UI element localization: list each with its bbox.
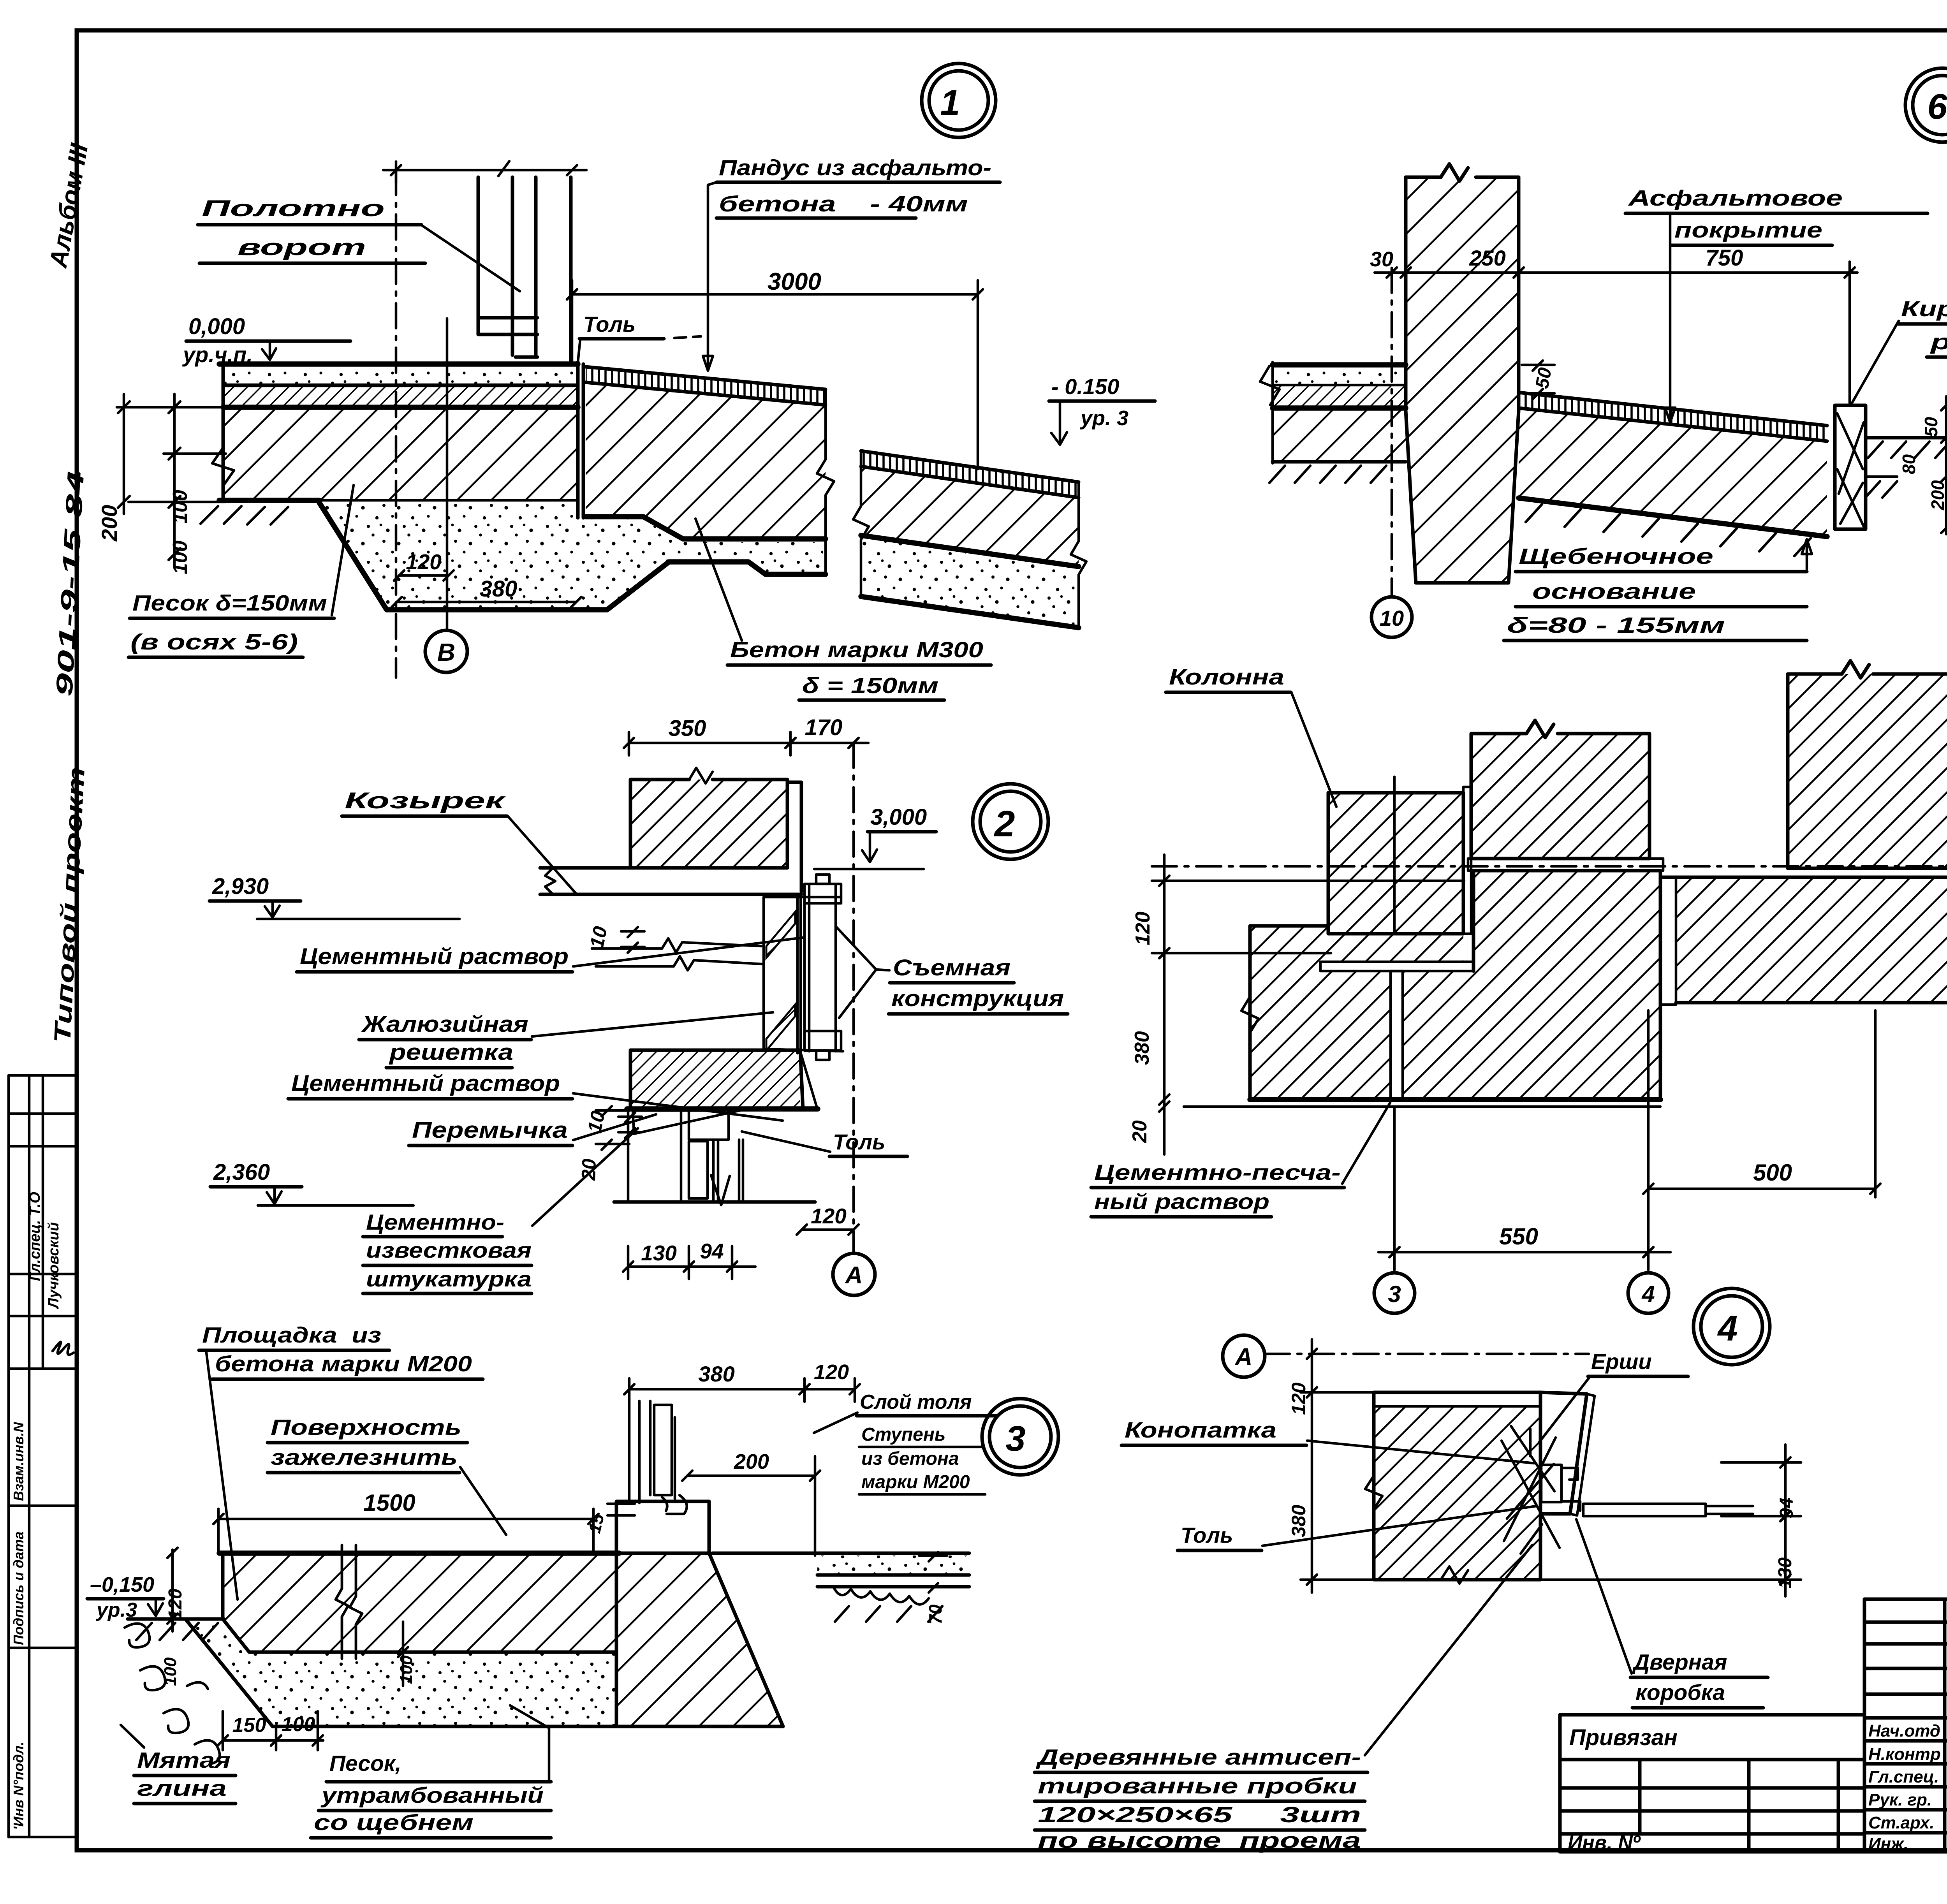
frame bottom bracket (805, 1031, 841, 1051)
dim 550 (1378, 1251, 1671, 1254)
louver slat 2 (766, 1005, 795, 1051)
svg-text:Перемычка: Перемычка (412, 1117, 568, 1143)
svg-text:100: 100 (282, 1713, 315, 1736)
mortar seam under column 2 (1468, 859, 1663, 871)
detail 6 section at ramp pier (1260, 68, 1947, 641)
left dim chain 100 100 (173, 394, 176, 567)
svg-text:Н.контр: Н.контр (1868, 1745, 1941, 1764)
left dim chain 200 (123, 394, 125, 514)
svg-text:120: 120 (406, 550, 442, 574)
canopy upstand lip (787, 782, 801, 892)
sand band below (861, 537, 1079, 628)
sand pit stipple under slab (319, 503, 823, 610)
door frame head block (689, 1110, 729, 1140)
svg-text:130: 130 (1775, 1557, 1796, 1589)
svg-text:Ступень: Ступень (861, 1424, 945, 1445)
right edge break of ramp (817, 389, 834, 574)
svg-text:380: 380 (698, 1362, 734, 1386)
svg-text:170: 170 (805, 715, 843, 740)
svg-text:2,930: 2,930 (212, 874, 269, 899)
drip V mark (711, 1175, 730, 1205)
ramp tick band right of seam (586, 367, 826, 405)
canopy slab (540, 868, 801, 894)
wall bottom edge (1250, 1097, 1660, 1102)
sill line (614, 1200, 815, 1204)
svg-text:4: 4 (1641, 1281, 1655, 1307)
svg-text:Подпись и дата: Подпись и дата (11, 1531, 26, 1645)
svg-text:А: А (1234, 1344, 1253, 1371)
pier (trapezoid column) (1406, 177, 1519, 583)
svg-text:10: 10 (586, 924, 611, 950)
axis 4 line (1647, 1010, 1650, 1270)
svg-text:3,000: 3,000 (870, 804, 927, 830)
left dim chain 120 380 20 (1163, 855, 1166, 1154)
svg-text:Цементно-: Цементно- (366, 1210, 504, 1234)
top dimension line of gate (383, 169, 586, 172)
platform slab (223, 1553, 616, 1652)
plaster wedge under lintel (633, 1110, 740, 1134)
svg-text:Мятая: Мятая (137, 1748, 231, 1773)
svg-text:3000: 3000 (768, 268, 821, 295)
svg-text:0,000: 0,000 (188, 314, 245, 339)
svg-text:380: 380 (1131, 1031, 1153, 1065)
column 1 (plan) (1328, 793, 1463, 934)
svg-text:6: 6 (1927, 87, 1947, 127)
svg-text:380: 380 (1288, 1505, 1310, 1537)
right sub-section of detail 1 (853, 374, 1155, 628)
axis to circle 10 (1391, 268, 1393, 595)
svg-text:3: 3 (1388, 1281, 1401, 1307)
lintel block (630, 1050, 800, 1109)
concrete below (861, 468, 1079, 567)
svg-text:80: 80 (1899, 454, 1919, 474)
svg-text:Инж.: Инж. (1868, 1834, 1908, 1853)
wall faces below lintel (628, 1109, 681, 1202)
svg-text:100: 100 (169, 540, 192, 574)
svg-text:120: 120 (1288, 1382, 1310, 1415)
svg-text:зажелезнить: зажелезнить (271, 1445, 458, 1470)
right dim chain 50 80 200 (1945, 396, 1947, 534)
break lines across platform (336, 1545, 362, 1659)
detail 4 door jamb plan (1035, 1335, 1801, 1853)
leader to ramp surface (703, 182, 716, 371)
axis A dash-dot line (1265, 1353, 1589, 1355)
edge breaks (853, 451, 1086, 628)
dim 350 / 170 (629, 742, 868, 744)
svg-text:- 0.150: - 0.150 (1051, 374, 1119, 399)
svg-text:покрытие: покрытие (1674, 218, 1822, 243)
dim 380 under slab (397, 601, 576, 604)
svg-text:Слой толя: Слой толя (860, 1391, 972, 1413)
svg-text:20: 20 (577, 1158, 600, 1181)
svg-text:150: 150 (232, 1714, 266, 1737)
dim 1500 (218, 1518, 593, 1520)
sand pit below platform (185, 1619, 616, 1726)
svg-text:200: 200 (97, 505, 121, 542)
svg-text:Толь: Толь (1181, 1523, 1233, 1547)
detail circle 2 (973, 784, 1048, 859)
axis circle 4 (1628, 1273, 1669, 1313)
masonry block (1374, 1406, 1540, 1580)
svg-text:В: В (437, 638, 455, 666)
ramp tick band (861, 451, 1079, 498)
svg-text:Площадка из: Площадка из (202, 1323, 381, 1348)
svg-text:94: 94 (700, 1239, 724, 1263)
svg-text:Жалюзийная: Жалюзийная (361, 1012, 528, 1037)
sand bedding band (223, 364, 578, 385)
ramp concrete right of pier (1519, 410, 1827, 537)
svg-text:Песок,: Песок, (329, 1751, 401, 1776)
left margin stamp table (9, 1075, 77, 1837)
axis circle 10 (1371, 597, 1412, 637)
wall above foundation (616, 1501, 709, 1553)
axis circle A (833, 1253, 875, 1295)
svg-text:–0,150: –0,150 (90, 1573, 154, 1596)
detail circle 3 (982, 1399, 1058, 1475)
wall piece below seam left (1328, 971, 1391, 1100)
svg-text:4: 4 (1717, 1309, 1738, 1348)
svg-text:100: 100 (169, 490, 192, 524)
ramp tick band right of pier (1519, 392, 1827, 441)
svg-text:Асфальтовое: Асфальтовое (1627, 186, 1843, 211)
axis A dash-dot (852, 743, 855, 1253)
ershi X spikes (1502, 1426, 1560, 1554)
svg-text:1: 1 (940, 83, 960, 123)
privyazan sub-table (1560, 1715, 1864, 1852)
door jamb return (1540, 1392, 1587, 1514)
svg-text:Лучковский: Лучковский (46, 1222, 62, 1309)
svg-text:380: 380 (480, 576, 518, 602)
svg-text:тированные пробки: тированные пробки (1038, 1774, 1357, 1798)
svg-text:100: 100 (397, 1655, 416, 1684)
concrete slab (left of seam) (223, 410, 578, 500)
svg-text:Ст.арх.: Ст.арх. (1868, 1813, 1935, 1832)
detail 2 louver opening section (209, 715, 1068, 1295)
svg-text:2,360: 2,360 (213, 1160, 270, 1185)
svg-text:решетка: решетка (389, 1040, 513, 1065)
detail circle 4 (1694, 1288, 1770, 1365)
svg-text:Щебеночное: Щебеночное (1519, 544, 1713, 569)
wall break lines across opening (592, 938, 762, 970)
svg-text:основание: основание (1532, 579, 1696, 604)
svg-text:250: 250 (1469, 246, 1505, 270)
svg-text:марки М200: марки М200 (861, 1472, 970, 1492)
svg-text:2: 2 (994, 803, 1015, 845)
wall strip under column 1 (1328, 934, 1463, 962)
brick on edge (1835, 405, 1866, 529)
svg-text:20: 20 (1128, 1120, 1151, 1143)
wall left part (1250, 926, 1328, 1100)
svg-text:Колонна: Колонна (1169, 665, 1284, 690)
interior floor right of wall (817, 1556, 969, 1575)
svg-text:ный раствор: ный раствор (1094, 1189, 1269, 1214)
svg-text:Гл.спец. Т.О: Гл.спец. Т.О (27, 1192, 43, 1281)
svg-text:Ерши: Ерши (1591, 1349, 1652, 1374)
svg-text:Рук. гр.: Рук. гр. (1868, 1790, 1932, 1809)
svg-text:120: 120 (811, 1204, 847, 1228)
svg-text:А: А (845, 1262, 863, 1289)
dim 380 120 top (629, 1388, 855, 1391)
leader to gate (422, 226, 520, 291)
detail 3 entrance platform section (87, 1323, 1058, 1838)
dim 3000 (572, 293, 978, 296)
axis mortar seam below column 1 (1391, 971, 1403, 1100)
right wall (plan) (1676, 877, 1947, 1003)
axis circle A (bottom left) (1223, 1335, 1265, 1377)
gate leaf bars (478, 177, 571, 362)
main title block frame (1560, 1599, 1947, 1852)
svg-text:94: 94 (1776, 1498, 1797, 1519)
svg-text:Съемная: Съемная (893, 955, 1010, 980)
mortar seam right of column 1 (1463, 787, 1471, 934)
dim 200 step (687, 1475, 815, 1477)
svg-text:ворот: ворот (238, 235, 366, 260)
svg-text:Цементный раствор: Цементный раствор (291, 1071, 560, 1096)
svg-text:штукатурка: штукатурка (366, 1267, 532, 1291)
svg-text:120×250×65 3шт: 120×250×65 3шт (1038, 1802, 1361, 1827)
svg-text:бетона марки М200: бетона марки М200 (215, 1351, 472, 1376)
svg-text:Гл.спец.: Гл.спец. (1868, 1767, 1939, 1786)
ground line left (128, 1617, 224, 1621)
tol seam (vertical) (576, 362, 580, 518)
svg-text:Поверхность: Поверхность (271, 1415, 461, 1440)
svg-text:500: 500 (1753, 1160, 1792, 1186)
svg-text:Полотно: Полотно (202, 196, 385, 221)
svg-text:100: 100 (161, 1657, 180, 1686)
svg-text:3: 3 (1005, 1419, 1025, 1459)
svg-text:бетона - 40мм: бетона - 40мм (719, 192, 968, 216)
soil break hatch under slab left end (201, 506, 288, 524)
soil hatch under ramp concrete (1526, 504, 1811, 556)
wall above canopy (630, 780, 787, 866)
svg-text:Козырек: Козырек (345, 788, 506, 813)
svg-text:Песок δ=150мм: Песок δ=150мм (132, 591, 327, 616)
right dim chain 94 130 (1784, 1445, 1787, 1596)
svg-text:Нач.отд: Нач.отд (1868, 1721, 1940, 1740)
svg-text:Бетон марки М300: Бетон марки М300 (730, 637, 983, 662)
column 2 (plan) (1471, 734, 1649, 859)
dims 130 / 94 (628, 1265, 755, 1268)
svg-text:Кирпич на: Кирпич на (1901, 296, 1947, 321)
svg-text:δ=80 - 155мм: δ=80 - 155мм (1507, 613, 1725, 638)
svg-text:30: 30 (1370, 248, 1393, 271)
svg-text:Цементный раствор: Цементный раствор (300, 944, 569, 969)
door leaf bar (1583, 1504, 1706, 1516)
ramp concrete mass (586, 384, 826, 539)
svg-text:200: 200 (734, 1450, 769, 1473)
svg-text:глина: глина (137, 1776, 227, 1801)
ground right of brick (1866, 436, 1947, 440)
floor left of pier: sand band (1273, 365, 1406, 385)
svg-text:130: 130 (641, 1241, 677, 1265)
svg-text:δ = 150мм: δ = 150мм (802, 673, 938, 698)
svg-text:200: 200 (1928, 480, 1947, 510)
door leaf lines (713, 1140, 743, 1202)
soil bumps and hatch below floor (833, 1587, 942, 1622)
mortar seam under column 1 (1320, 962, 1473, 971)
column 3 (plan) (1788, 674, 1947, 868)
svg-text:ур. 3: ур. 3 (1079, 406, 1128, 430)
svg-text:Привязан: Привязан (1569, 1725, 1678, 1750)
svg-text:50: 50 (1921, 417, 1941, 437)
axis circle 3 (1374, 1273, 1415, 1313)
door frame jamb (689, 1141, 708, 1198)
svg-text:Конопатка: Конопатка (1125, 1418, 1276, 1443)
svg-text:Пандус из асфальто-: Пандус из асфальто- (719, 155, 991, 180)
dim 120 at axis (802, 1228, 854, 1231)
louver slat 1 (766, 912, 795, 958)
svg-text:утрамбованный: утрамбованный (320, 1783, 544, 1808)
svg-text:Деревянные антисеп-: Деревянные антисеп- (1035, 1745, 1361, 1770)
solid section axis to circle B (446, 319, 449, 630)
dim 500 (1648, 1188, 1875, 1190)
svg-text:Толь: Толь (583, 312, 636, 336)
dim line 30 250 750 (1375, 271, 1857, 274)
svg-text:Цементно-песча-: Цементно-песча- (1094, 1160, 1341, 1184)
frame top bracket (805, 884, 841, 903)
svg-text:известковая: известковая (366, 1238, 532, 1262)
louver channel (764, 897, 843, 1053)
floor left: asphalt band (1273, 386, 1406, 406)
svg-text:Дверная: Дверная (1632, 1650, 1727, 1675)
door frame profile (1541, 1465, 1561, 1502)
svg-text:(в осях 5-6): (в осях 5-6) (130, 630, 298, 655)
svg-text:из бетона: из бетона (861, 1448, 959, 1469)
svg-text:350: 350 (669, 716, 706, 741)
svg-text:конструкция: конструкция (891, 986, 1064, 1011)
svg-text:750: 750 (1706, 245, 1743, 271)
floor left: concrete (1273, 410, 1406, 462)
svg-text:со щебнем: со щебнем (314, 1810, 474, 1835)
svg-text:120: 120 (814, 1360, 849, 1384)
svg-text:1500: 1500 (363, 1490, 415, 1516)
wall main part (1403, 871, 1660, 1100)
detail circle 1 (922, 63, 996, 137)
axis 3 line (1393, 1107, 1396, 1270)
svg-text:Взам.инв.N: Взам.инв.N (11, 1422, 26, 1501)
svg-text:коробка: коробка (1635, 1680, 1725, 1705)
removable frame verticals (801, 885, 836, 1051)
axis circle B (425, 630, 467, 672)
masonry stipple band on top (1374, 1392, 1540, 1406)
detail circle 6 (1905, 68, 1947, 142)
title block (1560, 1599, 1947, 1900)
svg-text:Толь: Толь (833, 1130, 885, 1154)
door sill assembly (639, 1401, 650, 1503)
left stamp: signature squiggle (53, 1342, 74, 1355)
left dim chain 120 380 (1311, 1339, 1313, 1593)
svg-text:10: 10 (1380, 606, 1404, 630)
dim 120 under slab (399, 574, 449, 577)
svg-text:550: 550 (1499, 1223, 1538, 1249)
detail 1 section through gate ramp (97, 63, 1155, 700)
axis A dash-dot (plan) (1152, 865, 1947, 868)
asphalt layer band (223, 386, 578, 405)
dash-dot axis of gate (395, 170, 398, 677)
svg-text:70: 70 (925, 1604, 945, 1624)
dims 150 100 (223, 1739, 323, 1742)
svg-text:ребро: ребро (1929, 329, 1947, 354)
soil hatch under floor left (1269, 466, 1386, 483)
svg-text:'Инв N°подл.: 'Инв N°подл. (11, 1742, 26, 1830)
details 3-4 plan view of columns and walls (1091, 661, 1947, 1365)
foundation under wall (616, 1553, 783, 1726)
mortar seam to right wall (1660, 877, 1676, 1005)
clay swirls (myataya glina) (125, 1624, 220, 1764)
svg-text:120: 120 (1132, 912, 1154, 945)
